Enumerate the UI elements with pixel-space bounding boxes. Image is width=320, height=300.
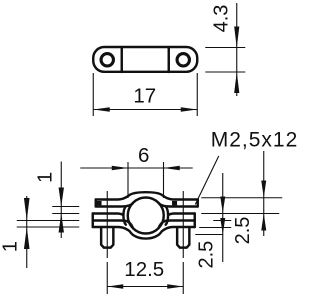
- left tab end vertical upper: [95, 200, 97, 207]
- outer contour side pinch right: [166, 206, 168, 224]
- dim 1 upper-strip dimension line: [60, 162, 62, 239]
- dim 17 extension line right: [196, 73, 198, 116]
- slit line right: [169, 214, 195, 215]
- lower strip top edge left (L4): [93, 221, 133, 228]
- dim 17 arrow right: [181, 107, 198, 112]
- plate divider left: [121, 48, 123, 73]
- dim 4.3 arrow bottom: [234, 72, 239, 93]
- dim 12.5 dimension line: [107, 286, 183, 288]
- svg-text:12.5: 12.5: [124, 258, 164, 281]
- dim 4.3 extension line top: [205, 47, 245, 49]
- dim 2.5 outer chain arrow bottom: [261, 214, 266, 231]
- upper strip bottom edge right: [159, 203, 198, 206]
- dim 1 lower-strip extension line bottom: [17, 226, 80, 228]
- svg-text:4.3: 4.3: [210, 5, 232, 33]
- dim 2.5 inner chain arrow bottom: [220, 218, 225, 235]
- dim 12.5 arrow right: [167, 284, 183, 289]
- dim 4.3 dimension line: [236, 3, 238, 96]
- dim 12.5 arrow left: [107, 284, 123, 289]
- dim 2.5 inner chain line: [222, 173, 224, 262]
- right tab end vertical lower: [194, 214, 196, 228]
- screw centerline right: [182, 191, 184, 258]
- svg-text:17: 17: [133, 85, 156, 108]
- screw centerline left: [106, 191, 108, 258]
- dim 2.5 inner chain arrow top: [220, 197, 225, 214]
- dim 1 lower-strip arrow bottom: [24, 227, 30, 249]
- dim 6 extension line left: [127, 162, 129, 198]
- screw shank right: [177, 228, 189, 248]
- dim 6 extension line right: [163, 162, 165, 198]
- dim 1 lower-strip extension line top: [17, 220, 80, 222]
- dim 12.5 extension line right: [182, 262, 184, 294]
- dim 2.5 outer chain line: [263, 151, 265, 236]
- slit line left (L3): [93, 214, 123, 215]
- upper strip bottom edge left (L2): [96, 203, 133, 206]
- svg-text:2.5: 2.5: [232, 217, 254, 245]
- right side extension lines: [195, 151, 282, 262]
- outer contour side pinch left: [123, 206, 125, 224]
- plate hole right (thick annulus): [177, 54, 189, 66]
- svg-text:M2,5x12: M2,5x12: [211, 129, 297, 152]
- ext: L5: [199, 227, 231, 229]
- dim 1 upper-strip arrow top: [59, 188, 64, 207]
- dim 1 lower-strip arrow top: [24, 198, 30, 221]
- notch (hook) right tab: [172, 201, 177, 205]
- dim 1 upper-strip arrow bottom: [59, 214, 64, 233]
- ext: slit: [201, 213, 279, 215]
- plate hole left (thick annulus): [101, 54, 113, 66]
- dim 6 dimension line: [80, 167, 193, 169]
- ext: hole top tangent: [201, 197, 282, 199]
- dim 1 lower-strip dimension line: [26, 196, 28, 268]
- screw shank left: [101, 228, 113, 248]
- right tab end vertical upper: [197, 200, 199, 207]
- clamp upper half outer contour (bell): [96, 192, 198, 199]
- lower strip top edge right: [159, 221, 195, 228]
- ext: L4: [213, 220, 231, 222]
- plate divider right: [168, 48, 170, 73]
- leader line for M2,5x12: [195, 156, 219, 205]
- dim 17 extension line left: [92, 73, 94, 116]
- svg-text:1: 1: [0, 241, 21, 252]
- clamp lower half outer contour (bell): [93, 227, 195, 239]
- plate outline (top view): [93, 47, 197, 72]
- dim 4.3 extension line bottom: [205, 71, 245, 73]
- dim 17 dimension line: [93, 109, 197, 111]
- dim 12.5 extension line left: [106, 262, 108, 294]
- dim 6 arrow left: [112, 166, 128, 171]
- dim 6 arrow right: [164, 166, 180, 171]
- ext: hole bottom tangent: [195, 234, 223, 236]
- svg-text:2.5: 2.5: [195, 241, 217, 269]
- dim 1 upper-strip extension tick bottom: [52, 213, 79, 215]
- notch (hook) left tab: [97, 201, 102, 205]
- svg-text:6: 6: [138, 144, 149, 167]
- dim 1 upper-strip extension tick top: [52, 206, 79, 208]
- left tab end vertical lower: [92, 214, 94, 228]
- inner circle (cable opening): [128, 198, 164, 234]
- dim 17 arrow left: [93, 107, 110, 112]
- dim 2.5 outer chain arrow top: [261, 181, 266, 198]
- dim 4.3 arrow top: [234, 27, 239, 48]
- svg-text:1: 1: [34, 172, 56, 183]
